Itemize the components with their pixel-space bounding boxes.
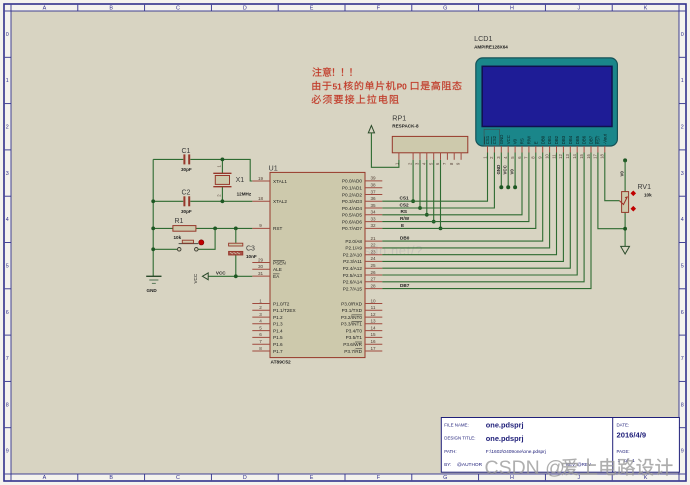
- svg-text:P2.6/A14: P2.6/A14: [343, 280, 363, 285]
- svg-text:2: 2: [259, 305, 262, 310]
- svg-text:K: K: [644, 475, 648, 481]
- wire left rail vertical: [152, 159, 154, 276]
- svg-text:P0.3/AD3: P0.3/AD3: [342, 199, 362, 204]
- svg-text:B: B: [109, 6, 113, 12]
- wire LCD pin 5 V0 stub: [514, 153, 516, 188]
- svg-text:CS1: CS1: [400, 196, 410, 201]
- RP1 pin 5 stub: [433, 153, 435, 160]
- svg-text:29: 29: [258, 257, 264, 262]
- svg-text:-Vout: -Vout: [602, 133, 607, 144]
- wire C3 riser bottom to VCC row: [235, 255, 237, 276]
- svg-text:3: 3: [681, 171, 684, 177]
- terminal dot VCC: [506, 185, 510, 189]
- U1 pin 10 P3.0/RXD: [341, 298, 382, 306]
- svg-text:10: 10: [370, 298, 376, 303]
- U1 pin 6 P1.5: [252, 332, 283, 340]
- svg-text:FILE NAME:: FILE NAME:: [444, 422, 468, 427]
- svg-text:16: 16: [370, 339, 376, 344]
- svg-text:8: 8: [259, 346, 262, 351]
- svg-text:1: 1: [259, 298, 262, 303]
- wire RP1 pin 3 pullup to P0.4 row: [419, 160, 421, 208]
- svg-text:P1.1/T2EX: P1.1/T2EX: [273, 308, 297, 313]
- resistor R1: [173, 226, 196, 232]
- RP1 pin 7 stub: [446, 153, 448, 160]
- U1 pin 11 P3.1/TXD: [342, 305, 383, 313]
- wire crystal top lead: [221, 159, 223, 173]
- svg-text:14: 14: [572, 153, 577, 158]
- svg-text:RS: RS: [520, 138, 525, 144]
- svg-text:U1: U1: [269, 164, 278, 173]
- svg-text:B: B: [109, 475, 113, 481]
- LCD1 screen: [482, 66, 612, 126]
- svg-text:2: 2: [681, 125, 684, 131]
- svg-text:P3.2/INT0: P3.2/INT0: [341, 315, 362, 320]
- svg-text:C1: C1: [182, 148, 191, 155]
- wire VCC row to EA pin 31: [208, 275, 252, 277]
- svg-text:P3.6/WR: P3.6/WR: [343, 342, 362, 347]
- U1 pin 22 P2.1/A9: [345, 243, 382, 251]
- wire net DB3 LCD pin 12 to U1: [382, 153, 563, 262]
- svg-text:DB3: DB3: [561, 135, 566, 144]
- svg-text:P1.5: P1.5: [273, 335, 283, 340]
- svg-text:GND: GND: [496, 165, 501, 175]
- wire LCD pin 18 -Vout to RV1 wiper: [605, 153, 620, 201]
- crystal X1: [213, 173, 231, 186]
- capacitor C3: [229, 243, 243, 255]
- junction RP1 pullup on row pin 32: [439, 227, 443, 231]
- U1 pin 35 P0.4/AD4: [342, 203, 382, 211]
- U1 pin 8 P1.7: [252, 346, 283, 354]
- wire crystal bottom lead: [221, 187, 223, 202]
- svg-text:CS1: CS1: [485, 135, 490, 144]
- svg-text:P1.3: P1.3: [273, 322, 283, 327]
- svg-text:10k: 10k: [174, 235, 182, 240]
- svg-text:P3.3/INT1: P3.3/INT1: [341, 322, 362, 327]
- svg-text:31: 31: [258, 271, 264, 276]
- U1 pin 33 P0.6/AD6: [342, 216, 382, 224]
- junction RP1 pullup on row pin 33: [432, 220, 436, 224]
- RP1 pin 1 stub: [398, 153, 400, 160]
- U1 pin 14 P3.4/T0: [346, 325, 383, 333]
- junction rail at button row: [151, 247, 155, 251]
- svg-text:DB7: DB7: [589, 135, 594, 144]
- svg-text:4: 4: [259, 319, 262, 324]
- svg-text:DB4: DB4: [568, 135, 573, 144]
- svg-text:AMPIRE128X64: AMPIRE128X64: [474, 45, 508, 50]
- svg-text:4: 4: [681, 217, 684, 223]
- wire button row: [153, 228, 215, 249]
- svg-text:PAGE:: PAGE:: [617, 449, 630, 454]
- selection box around CS1 CS2 labels: [484, 129, 500, 146]
- U1 pin 34 P0.5/AD5: [342, 210, 382, 218]
- ground symbol under RV1: [621, 246, 630, 254]
- ground symbol GND left: [146, 276, 161, 283]
- svg-text:J: J: [577, 6, 580, 12]
- svg-text:1: 1: [6, 78, 9, 84]
- U1 pin 39 P0.0/AD0: [342, 176, 382, 184]
- U1 pin 37 P0.2/AD2: [342, 189, 382, 197]
- U1 pin 1 P1.0/T2: [252, 298, 290, 306]
- svg-text:CSDN @: CSDN @: [485, 457, 565, 479]
- wire net CS1 LCD pin 1 to U1: [382, 153, 487, 202]
- U1 pin 19 XTAL1: [252, 176, 287, 184]
- U1 pin 9 RST: [252, 223, 282, 231]
- wire net RS LCD pin 6 to U1: [382, 153, 522, 215]
- svg-text:P0.1/AD1: P0.1/AD1: [342, 186, 362, 191]
- svg-text:11: 11: [371, 305, 376, 310]
- wire net DB7 LCD pin 16 to U1: [382, 153, 591, 289]
- svg-text:19: 19: [258, 176, 264, 181]
- svg-text:30pF: 30pF: [181, 209, 192, 214]
- svg-text:R1: R1: [175, 218, 184, 225]
- U1 pin 26 P2.5/A13: [343, 270, 383, 278]
- svg-text:P1.4: P1.4: [273, 328, 283, 333]
- LCD1 graphic display body: [476, 58, 618, 146]
- svg-text:P2.5/A13: P2.5/A13: [343, 273, 363, 278]
- svg-text:RP1: RP1: [392, 114, 406, 123]
- resistor pack RP1 RESPACK-8 body: [392, 136, 468, 152]
- svg-text:2: 2: [6, 125, 9, 131]
- svg-text:30: 30: [258, 264, 264, 269]
- svg-text:P3.4/T0: P3.4/T0: [346, 328, 363, 333]
- svg-text:E: E: [401, 223, 404, 228]
- svg-text:14: 14: [370, 325, 376, 330]
- svg-text:VCC: VCC: [216, 271, 226, 276]
- junction RP1 pullup on row pin 34: [425, 213, 429, 217]
- svg-text:9: 9: [6, 449, 9, 455]
- capacitor C1: [184, 154, 189, 164]
- wire RP1 pin1 to power arrow: [371, 133, 399, 167]
- RP1 pin 4 stub: [426, 153, 428, 160]
- svg-text:C: C: [176, 6, 180, 12]
- svg-text:34: 34: [370, 210, 376, 215]
- svg-text:35: 35: [370, 203, 376, 208]
- svg-text:32: 32: [370, 223, 376, 228]
- svg-text:0: 0: [6, 32, 9, 38]
- capacitor C2: [184, 196, 189, 206]
- svg-text:CS2: CS2: [492, 135, 497, 144]
- LCD1 pin numbers: [482, 153, 604, 158]
- svg-text:P2.1/A9: P2.1/A9: [345, 246, 362, 251]
- svg-text:28: 28: [370, 283, 376, 288]
- LCD1 pin name strip: [485, 133, 607, 144]
- wire net CS2 LCD pin 2 to U1: [382, 153, 494, 209]
- RP1 pin 2 stub: [412, 153, 414, 160]
- svg-text:DB7: DB7: [400, 283, 410, 288]
- terminal dot V0: [513, 185, 517, 189]
- svg-text:VCC: VCC: [503, 164, 508, 174]
- junction RP1 pullup on row pin 35: [418, 206, 422, 210]
- svg-text:DB0: DB0: [400, 236, 410, 241]
- U1 pin 27 P2.6/A14: [343, 277, 383, 285]
- wire net DB0 LCD pin 9 to U1: [382, 153, 542, 242]
- svg-text:P2.2/A10: P2.2/A10: [343, 253, 363, 258]
- svg-text:30pF: 30pF: [181, 167, 192, 172]
- svg-text:7: 7: [6, 356, 9, 362]
- svg-text:P3.0/RXD: P3.0/RXD: [341, 301, 362, 306]
- wire C3 riser top: [235, 228, 237, 243]
- svg-text:DATE:: DATE:: [617, 422, 630, 427]
- red note text line 1: [312, 67, 321, 76]
- wire RP1 pin 4 pullup to P0.5 row: [426, 160, 428, 215]
- svg-text:R/W: R/W: [400, 216, 410, 221]
- svg-text:D: D: [243, 475, 247, 481]
- svg-text:V0: V0: [513, 138, 518, 144]
- U1 pin 17 P3.7/RD: [344, 346, 382, 354]
- svg-text:21: 21: [370, 236, 376, 241]
- svg-text:P1.2: P1.2: [273, 315, 283, 320]
- svg-text:9: 9: [681, 449, 684, 455]
- svg-text:EA: EA: [273, 274, 280, 279]
- svg-text:7: 7: [681, 356, 684, 362]
- junction RST row at C3 riser: [234, 227, 238, 231]
- svg-text:DB1: DB1: [547, 135, 552, 144]
- svg-text:A: A: [43, 475, 47, 481]
- wire LCD pin 4 VCC stub: [507, 153, 509, 188]
- svg-text:H: H: [510, 6, 514, 12]
- svg-text:P3.5/T1: P3.5/T1: [346, 335, 363, 340]
- svg-text:15: 15: [370, 332, 376, 337]
- U1 pin 31 EA: [252, 271, 280, 279]
- svg-text:P1.6: P1.6: [273, 342, 283, 347]
- U1 pin 21 P2.0/A8: [345, 236, 382, 244]
- overlines on CS1 CS2 RST lcd labels: [485, 137, 596, 145]
- svg-text:XTAL2: XTAL2: [273, 199, 287, 204]
- U1 pin 30 ALE: [252, 264, 282, 272]
- svg-text:P0.4/AD4: P0.4/AD4: [342, 206, 362, 211]
- junction rail at C2 row: [151, 199, 155, 203]
- svg-text:V0: V0: [619, 171, 624, 177]
- svg-text:8: 8: [6, 402, 9, 408]
- U1 pin 38 P0.1/AD1: [342, 183, 382, 191]
- title block: [441, 418, 679, 473]
- svg-text:DB6: DB6: [582, 135, 587, 144]
- svg-text:AT89C52: AT89C52: [271, 360, 292, 366]
- svg-text:V0: V0: [510, 169, 515, 175]
- svg-text:10: 10: [544, 153, 549, 158]
- svg-text:3: 3: [6, 171, 9, 177]
- svg-text:33: 33: [370, 216, 376, 221]
- power terminal arrow up (VCC to RP1): [368, 126, 374, 133]
- svg-text:C: C: [176, 475, 180, 481]
- wire net E LCD pin 8 to U1: [382, 153, 536, 229]
- svg-text:2016/4/9: 2016/4/9: [617, 431, 647, 440]
- svg-text:12: 12: [558, 153, 563, 158]
- svg-text:5: 5: [681, 263, 684, 269]
- svg-text:GND: GND: [147, 288, 158, 293]
- svg-text:7: 7: [259, 339, 262, 344]
- svg-text:26: 26: [370, 270, 376, 275]
- wire net DB6 LCD pin 15 to U1: [382, 153, 584, 282]
- potentiometer RV1 body: [620, 192, 629, 213]
- svg-text:6: 6: [6, 310, 9, 316]
- red note text line 3: [312, 95, 321, 104]
- svg-text:P0.6/AD6: P0.6/AD6: [342, 219, 362, 224]
- U1 pin 3 P1.2: [252, 312, 283, 320]
- RP1 pin 8 stub: [453, 153, 455, 160]
- wire V0 dot to RV1 top: [624, 160, 626, 191]
- U1 pin 32 P0.7/AD7: [342, 223, 382, 231]
- svg-text:36: 36: [370, 196, 376, 201]
- LCD1 pin stubs: [488, 146, 605, 153]
- red note text line 2: [312, 81, 320, 90]
- wire LCD pin 3 GND stub: [500, 153, 502, 188]
- svg-text:17: 17: [370, 346, 376, 351]
- svg-text:9: 9: [259, 223, 262, 228]
- svg-text:RST: RST: [273, 226, 283, 231]
- svg-text:24: 24: [370, 256, 376, 261]
- wire net DB1 LCD pin 10 to U1: [382, 153, 549, 248]
- svg-text:13: 13: [565, 153, 570, 158]
- svg-text:VCC: VCC: [506, 135, 511, 144]
- svg-text:27: 27: [370, 277, 376, 282]
- U1 pin 36 P0.3/AD3: [342, 196, 382, 204]
- svg-text:P0: P0: [397, 81, 408, 91]
- wire net DB5 LCD pin 14 to U1: [382, 153, 577, 276]
- RP1 pin 3 stub: [419, 153, 421, 160]
- svg-text:4: 4: [6, 217, 9, 223]
- svg-text:P3.7/RD: P3.7/RD: [344, 349, 362, 354]
- svg-text:RV1: RV1: [638, 184, 652, 191]
- svg-text:5: 5: [259, 325, 262, 330]
- svg-text:CS2: CS2: [400, 202, 410, 207]
- RV1 unconnected pin diamond bottom: [631, 206, 637, 212]
- svg-text:one.pdsprj: one.pdsprj: [486, 421, 524, 430]
- svg-text:P2.7/A15: P2.7/A15: [343, 286, 363, 291]
- terminal dot GND: [499, 185, 503, 189]
- svg-text:11: 11: [551, 154, 556, 159]
- svg-text:3: 3: [259, 312, 262, 317]
- svg-text:0: 0: [681, 32, 684, 38]
- svg-text:P0.7/AD7: P0.7/AD7: [342, 226, 362, 231]
- wire RST row rail to R1: [153, 227, 252, 229]
- svg-text:22: 22: [370, 243, 376, 248]
- svg-text:37: 37: [370, 189, 376, 194]
- svg-text:P0.5/AD5: P0.5/AD5: [342, 213, 362, 218]
- svg-text:10nF: 10nF: [246, 254, 257, 259]
- svg-text:DB5: DB5: [575, 135, 580, 144]
- junction RST row at button riser: [213, 227, 217, 231]
- power terminal VCC arrow: [202, 273, 208, 280]
- svg-text:25: 25: [370, 263, 376, 268]
- svg-text:P2.0/A8: P2.0/A8: [345, 239, 362, 244]
- svg-text:E: E: [310, 6, 314, 12]
- svg-text:12: 12: [370, 312, 376, 317]
- U1 pin 4 P1.3: [252, 319, 283, 327]
- svg-text:P0.2/AD2: P0.2/AD2: [342, 192, 362, 197]
- V0 terminal dot above RV1: [623, 158, 627, 162]
- svg-text:PSEN: PSEN: [273, 260, 286, 265]
- svg-text:XTAL1: XTAL1: [273, 179, 287, 184]
- junction VCC row at C3: [234, 274, 238, 278]
- svg-text:18: 18: [258, 196, 264, 201]
- wire RP1 pin 6 pullup to P0.7 row: [440, 160, 442, 229]
- wire LCD pin 17 RST to RV1 bottom node: [598, 153, 625, 229]
- U1 pin 7 P1.6: [252, 339, 283, 347]
- junction crystal bottom on C2 row: [221, 199, 225, 203]
- svg-text:P2.4/A12: P2.4/A12: [343, 266, 363, 271]
- svg-text:15: 15: [579, 153, 584, 158]
- junction RP1 pullup on row pin 36: [411, 199, 415, 203]
- wire C2 row / XTAL2 row: [153, 200, 252, 202]
- U1 pin 28 P2.7/A15: [343, 283, 383, 291]
- svg-text:K: K: [644, 6, 648, 12]
- U1 pin 25 P2.4/A12: [343, 263, 383, 271]
- svg-text:16: 16: [586, 153, 591, 158]
- svg-text:BY:: BY:: [444, 462, 451, 467]
- junction RV1 bottom node: [623, 227, 627, 231]
- svg-text:8: 8: [681, 402, 684, 408]
- svg-text:P1.0/T2: P1.0/T2: [273, 301, 290, 306]
- svg-text:12MHz: 12MHz: [237, 191, 252, 196]
- svg-text:51: 51: [333, 81, 343, 91]
- svg-text:G: G: [443, 6, 447, 12]
- RV1 unconnected pin diamond top: [631, 191, 637, 197]
- svg-text:18: 18: [600, 153, 605, 158]
- svg-text:@AUTHOR: @AUTHOR: [457, 462, 483, 468]
- svg-text:R/W: R/W: [527, 135, 532, 144]
- svg-text:P2.3/A11: P2.3/A11: [343, 259, 362, 264]
- svg-text:F:\1602\0409one\one.pdsprj: F:\1602\0409one\one.pdsprj: [486, 449, 546, 455]
- U1 pin 18 XTAL2: [252, 196, 287, 204]
- junction rail at RST row: [151, 227, 155, 231]
- svg-text:E: E: [533, 141, 538, 144]
- U1 pin 5 P1.4: [252, 325, 283, 333]
- svg-text:C3: C3: [246, 246, 255, 253]
- svg-text:P1.7: P1.7: [273, 349, 283, 354]
- microcontroller U1 AT89C52 body: [270, 172, 365, 357]
- svg-text:D: D: [243, 6, 247, 12]
- svg-text:6: 6: [681, 310, 684, 316]
- svg-text:5: 5: [6, 263, 9, 269]
- svg-text:DESIGN TITLE:: DESIGN TITLE:: [444, 436, 475, 441]
- U1 pin 29 PSEN: [252, 257, 285, 265]
- svg-text:PATH:: PATH:: [444, 449, 456, 454]
- svg-text:G: G: [443, 475, 447, 481]
- svg-text:X1: X1: [236, 177, 245, 184]
- svg-text:one.pdsprj: one.pdsprj: [486, 434, 524, 443]
- U1 pin 13 P3.3/INT1: [341, 319, 382, 327]
- svg-text:10k: 10k: [644, 193, 652, 198]
- wire C1 row from rail to XTAL1: [153, 159, 252, 181]
- RP1 pin 9 stub: [460, 153, 462, 160]
- svg-text:DB2: DB2: [554, 135, 559, 144]
- U1 pin 23 P2.2/A10: [343, 250, 383, 258]
- svg-text:C2: C2: [182, 190, 191, 197]
- wire RV1 bottom to node and ground: [624, 212, 626, 246]
- wire net DB2 LCD pin 11 to U1: [382, 153, 556, 255]
- U1 pin 12 P3.2/INT0: [341, 312, 382, 320]
- svg-text:DB0: DB0: [540, 135, 545, 144]
- wire RP1 pin 5 pullup to P0.6 row: [433, 160, 435, 222]
- svg-text:ALE: ALE: [273, 267, 282, 272]
- svg-text:23: 23: [370, 250, 376, 255]
- svg-text:VCC: VCC: [193, 273, 198, 283]
- svg-text:RST: RST: [596, 135, 601, 144]
- svg-text:RESPACK-8: RESPACK-8: [392, 124, 419, 129]
- svg-text:6: 6: [259, 332, 262, 337]
- svg-text:17: 17: [593, 153, 598, 158]
- RP1 pin 6 stub: [440, 153, 442, 160]
- push button (reset): [177, 240, 204, 251]
- svg-text:13: 13: [370, 319, 376, 324]
- U1 pin 2 P1.1/T2EX: [252, 305, 296, 313]
- svg-text:1: 1: [681, 78, 684, 84]
- svg-text:E: E: [310, 475, 314, 481]
- wire net R/W LCD pin 7 to U1: [382, 153, 529, 222]
- U1 pin 15 P3.5/T1: [346, 332, 383, 340]
- wire net DB4 LCD pin 13 to U1: [382, 153, 570, 269]
